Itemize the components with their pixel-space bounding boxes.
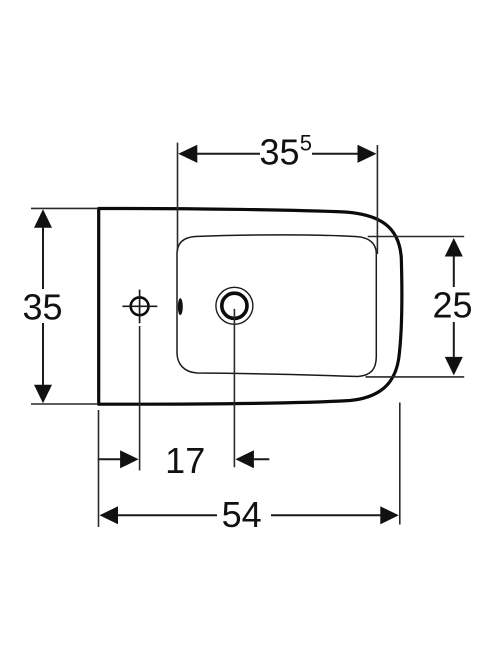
dim 17 right tail — [253, 458, 269, 460]
dim 35 line upper segment — [42, 227, 44, 289]
dim 25 bottom extension line — [366, 376, 465, 378]
overflow hole — [178, 298, 183, 315]
dim 54 left extension line — [98, 410, 100, 527]
dim 25 up arrow — [445, 238, 463, 257]
dim 35_5 line left segment — [197, 153, 261, 155]
dim 54 left arrow — [100, 506, 119, 524]
dim 25 line lower segment — [453, 322, 455, 358]
drain outer circle — [216, 287, 253, 324]
svg-text:35: 35 — [22, 286, 62, 327]
dim 35_5 left arrow — [178, 145, 197, 163]
dim 25 top extension line — [368, 236, 465, 238]
svg-text:54: 54 — [222, 494, 262, 535]
dim 54 line right segment — [271, 514, 381, 516]
svg-text:5: 5 — [300, 131, 312, 156]
svg-text:17: 17 — [165, 440, 205, 481]
bidet outer body outline — [99, 208, 402, 404]
dim 35 line lower segment — [42, 323, 44, 386]
dim 35_5 left extension line — [177, 143, 179, 251]
svg-text:25: 25 — [432, 284, 472, 325]
dim 17 right arrow — [235, 450, 254, 468]
dim 35_5 line right segment — [312, 153, 358, 155]
dim 35_5 right arrow — [358, 145, 377, 163]
dim 25 down arrow — [445, 357, 463, 376]
dim 54 right extension line — [399, 403, 401, 525]
dim 35 bottom extension line — [31, 403, 97, 405]
inner basin rim — [177, 235, 376, 377]
dim 35 up arrow — [34, 209, 52, 228]
tap hole crosshair vertical — [139, 290, 141, 324]
dim 54 line left segment — [117, 514, 217, 516]
dim 35_5 right extension line — [376, 145, 378, 254]
drain centerline — [233, 309, 235, 467]
dim 25 line upper segment — [453, 256, 455, 287]
drain inner circle — [222, 293, 247, 318]
svg-text:35: 35 — [260, 132, 300, 173]
tap hole centerline — [139, 326, 141, 471]
dim 17 left arrow — [120, 450, 139, 468]
dim 17 left tail — [98, 458, 121, 460]
dim 54 right arrow — [380, 506, 399, 524]
tap hole crosshair horizontal — [122, 305, 157, 307]
dim 35 top extension line — [31, 207, 97, 209]
tap hole circle — [131, 297, 149, 315]
dim 35 down arrow — [34, 385, 52, 404]
